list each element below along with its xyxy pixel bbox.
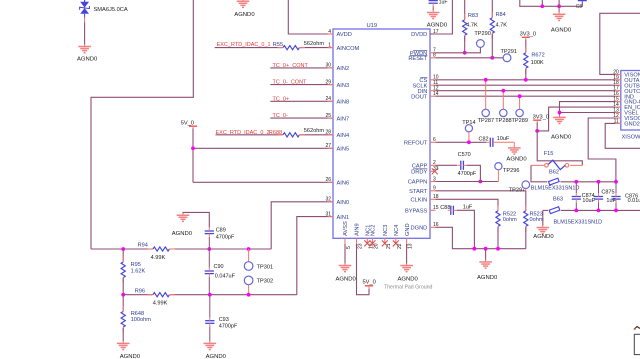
- svg-text:0.047uF: 0.047uF: [215, 274, 236, 280]
- svg-text:DOUT: DOUT: [411, 94, 428, 100]
- U19 pin 13 GND: [405, 223, 414, 249]
- wire bottom cap bus: [543, 209, 640, 211]
- wire lower bus 1: [91, 248, 271, 250]
- junction bus2 TP302: [247, 293, 251, 297]
- wire 5V_0 to AIN5/AIN6: [193, 128, 333, 182]
- connector pin 20 VISON: [613, 69, 640, 78]
- resistor R84 4.7K: [490, 0, 507, 58]
- svg-text:C82: C82: [479, 137, 489, 143]
- svg-text:10uF: 10uF: [497, 136, 510, 142]
- op-amp U19 ADC box: [333, 23, 430, 238]
- U19 pin 11 SCLK: [412, 80, 438, 89]
- U19 pin 31 AIN1: [325, 211, 349, 220]
- capacitor C570 4700pF: [458, 152, 477, 177]
- svg-text:C90: C90: [214, 264, 224, 270]
- U19 pin 18 CLKIN: [411, 194, 439, 203]
- U19 pin 1 AINCOM: [328, 42, 360, 51]
- wire VSEL pin13 to ground junction: [560, 112, 616, 114]
- svg-text:AGND0: AGND0: [551, 28, 572, 34]
- wire TC_0+_CONT to AIN2: [270, 67, 333, 69]
- connector pin 19 OUTA: [613, 75, 639, 84]
- junction top bus C874: [574, 180, 578, 184]
- svg-text:START: START: [409, 189, 428, 195]
- test point TP296: [495, 163, 520, 182]
- power 5V_0 bottom: [363, 280, 376, 289]
- svg-text:0ohm: 0ohm: [530, 217, 544, 223]
- junction bus1 TP301: [247, 247, 251, 251]
- svg-text:5V_0: 5V_0: [181, 120, 194, 126]
- resistor R95 1.62K: [121, 249, 145, 295]
- wire TC_0+ to AIN8: [270, 100, 333, 102]
- wire CS line: [435, 79, 615, 81]
- junction VSEL/ground: [558, 111, 562, 115]
- wire RESET to TP291: [435, 57, 503, 59]
- svg-text:C93: C93: [219, 317, 229, 323]
- junction EN_IO2/3V3_0: [535, 129, 539, 133]
- svg-text:SMA6J5.0CA: SMA6J5.0CA: [94, 7, 128, 13]
- wire DGND bus to ground: [485, 249, 487, 260]
- svg-text:AIN2: AIN2: [337, 66, 350, 72]
- junction bus1 R95: [121, 247, 125, 251]
- svg-text:AIN7: AIN7: [337, 116, 350, 122]
- svg-text:AGND0: AGND0: [234, 12, 255, 18]
- U19 pin 27 AIN5: [325, 143, 349, 152]
- wire lower bus 2: [123, 294, 297, 296]
- svg-text:21: 21: [386, 243, 392, 249]
- ground AGND0 under C93: [204, 341, 227, 359]
- svg-text:5V_0: 5V_0: [363, 280, 376, 286]
- svg-text:28: 28: [325, 130, 331, 136]
- svg-text:31: 31: [325, 211, 331, 217]
- capacitor C874 10uF: [572, 182, 596, 211]
- net label EXC_RTD_IDAC_0_2: [216, 130, 270, 136]
- svg-text:AGND0: AGND0: [172, 231, 193, 237]
- svg-text:GND: GND: [405, 223, 411, 236]
- U19 pin 25 AIN7: [325, 113, 349, 122]
- connector pin 16 IND: [613, 91, 634, 100]
- junction DGND bus ground: [484, 247, 488, 251]
- wire VISON from top right: [600, 13, 640, 74]
- power 5V_0 left: [181, 120, 197, 128]
- U19 pin 24 AIN8: [325, 96, 349, 105]
- svg-text:DGND: DGND: [411, 226, 428, 232]
- wire DOUT line: [435, 95, 615, 97]
- test point TP302: [244, 276, 273, 295]
- wire C570 to CAPPN: [467, 165, 481, 181]
- junction DGND bus C88: [473, 247, 477, 251]
- svg-text:100K: 100K: [531, 60, 544, 66]
- svg-text:R94: R94: [138, 243, 148, 249]
- capacitor C? 1uF at DVDD rail: [429, 0, 448, 11]
- svg-text:NC3: NC3: [383, 225, 389, 236]
- svg-text:100ohm: 100ohm: [131, 317, 152, 323]
- svg-text:AIN4: AIN4: [337, 133, 350, 139]
- junction top bus C876: [614, 180, 618, 184]
- junction DGND bus R522: [496, 247, 500, 251]
- U19 pin 8 RESET: [408, 53, 436, 62]
- svg-text:AGND0: AGND0: [477, 275, 498, 281]
- U19 pin 12 DIN: [418, 86, 439, 95]
- resistor R672 100K: [524, 40, 545, 80]
- svg-text:B63: B63: [553, 197, 563, 203]
- svg-text:AGND0: AGND0: [506, 157, 527, 163]
- wire REFOUT to C82: [435, 141, 486, 143]
- U19 pin 28 AIN4: [325, 130, 349, 139]
- junction C570/CAPPN: [479, 180, 483, 184]
- capacitor C93 4700pF: [205, 295, 238, 342]
- svg-text:4700pF: 4700pF: [216, 234, 235, 240]
- connector pin 11 GND2: [614, 118, 640, 127]
- resistor R83 4.7K: [463, 0, 479, 53]
- wire GND2 pin11 route: [605, 123, 640, 148]
- svg-text:DRDY: DRDY: [411, 170, 427, 176]
- U19 pin 7 PWDN: [410, 48, 436, 57]
- test point TP288: [495, 89, 511, 124]
- svg-text:33: 33: [433, 166, 439, 172]
- test point TP289: [512, 94, 528, 124]
- svg-text:GND2: GND2: [624, 122, 640, 128]
- wire EXC_RTD_IDAC_0_2 to AIN4: [216, 134, 334, 136]
- svg-text:NC2: NC2: [371, 225, 377, 236]
- svg-text:27: 27: [325, 143, 331, 149]
- capacitor C89 4700pF: [205, 228, 235, 249]
- junction bus2 C93: [208, 293, 212, 297]
- capacitor C82 10uF: [479, 136, 515, 147]
- U19 pin 14 DOUT: [411, 91, 439, 100]
- ground AGND0 on top bus: [551, 6, 572, 33]
- U19 pin 9 START: [409, 186, 436, 195]
- svg-text:DVDD: DVDD: [411, 32, 427, 38]
- svg-text:R95: R95: [131, 262, 141, 268]
- svg-text:RESET: RESET: [408, 56, 427, 62]
- wire EXC_RTD_IDAC_0_1 to AINCOM: [215, 47, 333, 49]
- U19 pin 20 NC2: [370, 225, 380, 249]
- svg-text:AIN5: AIN5: [337, 147, 350, 153]
- test point TP297: [509, 181, 530, 193]
- svg-text:CAPPN: CAPPN: [408, 180, 428, 186]
- ground AGND0 under AVSS: [336, 263, 357, 282]
- ferrite bead B63 BLM15EX331SN1D: [549, 197, 602, 226]
- wire top AGND bus: [520, 0, 583, 6]
- ground AGND0 under R648: [117, 341, 141, 359]
- svg-text:30: 30: [325, 63, 331, 69]
- wire AVDD: [288, 0, 333, 34]
- svg-text:C875: C875: [601, 190, 614, 196]
- svg-text:15: 15: [433, 205, 439, 211]
- net label TC_0+_CONT: [273, 63, 309, 69]
- test point TP287: [478, 78, 494, 124]
- svg-text:23: 23: [358, 243, 364, 249]
- wire DGND to bottom bus: [435, 227, 525, 248]
- capacitor C90 0.047uF: [205, 249, 236, 295]
- svg-text:TP302: TP302: [257, 279, 273, 285]
- wire C88 to DGND bus: [457, 210, 475, 248]
- svg-text:TP288: TP288: [495, 118, 511, 124]
- net label TC_0+: [273, 96, 290, 102]
- svg-text:R84: R84: [496, 12, 506, 18]
- svg-text:AGND0: AGND0: [336, 277, 357, 283]
- junction R672/CS: [524, 78, 528, 82]
- wire ferrite B63 to ground: [542, 210, 544, 225]
- title block corner: [634, 327, 640, 355]
- connector pin 15 GND-G: [613, 97, 640, 106]
- resistor R648 100ohm: [121, 295, 151, 342]
- wire PWDN to TP290: [435, 48, 480, 53]
- ground AGND0 under 1uF cap: [427, 10, 448, 28]
- svg-text:AGND0: AGND0: [398, 277, 419, 283]
- ground AGND0 DGND bus: [477, 260, 498, 281]
- svg-text:4.7K: 4.7K: [496, 23, 508, 29]
- svg-text:C570: C570: [458, 152, 471, 158]
- svg-text:562ohm: 562ohm: [304, 128, 325, 134]
- svg-text:25: 25: [325, 113, 331, 119]
- U19 pin 2 CAPP: [412, 160, 436, 169]
- svg-text:24: 24: [325, 96, 331, 102]
- test point TP14: [462, 120, 475, 144]
- U19 pin 29 AIN3: [325, 79, 349, 88]
- wire top cap bus: [561, 181, 617, 183]
- connector pin 13 VSEL: [613, 108, 638, 117]
- ground AGND0 under B63: [533, 225, 554, 240]
- svg-text:TP289: TP289: [512, 118, 528, 124]
- svg-text:Thermal Pad Ground: Thermal Pad Ground: [384, 285, 433, 291]
- junction bus1 C89/C90: [207, 247, 211, 251]
- resistor R688 562ohm: [269, 128, 325, 137]
- U19 pin 21 NC3: [382, 225, 392, 249]
- svg-text:5: 5: [346, 246, 352, 249]
- svg-text:AGND0: AGND0: [551, 134, 572, 140]
- U19 pin 10 CS: [419, 75, 438, 84]
- net label TC_0-: [273, 113, 288, 119]
- svg-text:TP287: TP287: [478, 118, 494, 124]
- svg-text:3V3_0: 3V3_0: [520, 31, 536, 37]
- svg-text:AGND0: AGND0: [206, 354, 227, 359]
- ground AGND0 feeding C89: [172, 213, 193, 237]
- U19 pin 5 AVSS: [343, 221, 352, 249]
- svg-text:4700pF: 4700pF: [458, 171, 477, 177]
- junction 5V_0/AIN5: [191, 146, 195, 150]
- capacitor C876 0.01uF: [611, 182, 640, 211]
- U19 pin 23 AIN9: [355, 223, 364, 249]
- connector pin 18 OUTB: [613, 80, 640, 89]
- net label EXC_RTD_IDAC_0_1: [217, 42, 271, 48]
- wire EN_IO2 pin14 to 3V3_0: [537, 107, 615, 131]
- U19 pin 16 DGND: [411, 222, 439, 231]
- svg-text:562ohm: 562ohm: [304, 41, 325, 47]
- svg-text:NC4: NC4: [394, 225, 400, 236]
- wire START to TP297: [435, 190, 525, 192]
- svg-text:AGND0: AGND0: [533, 234, 554, 240]
- junction bottom bus C876: [614, 209, 618, 213]
- resistor R522 0ohm: [496, 205, 517, 248]
- test point TP291: [501, 49, 517, 62]
- svg-text:AIN0: AIN0: [337, 200, 350, 206]
- wire 3V3_0 to fuse: [537, 122, 582, 165]
- wire TC_0- to AIN7: [270, 117, 333, 119]
- power 3V3_0 for R672: [520, 31, 536, 39]
- svg-text:C8: C8: [576, 4, 583, 10]
- wire TC_0-_CONT to AIN3: [270, 84, 333, 86]
- svg-text:AVSS: AVSS: [343, 221, 349, 236]
- ground AGND0 under TVS: [77, 44, 98, 62]
- U19 pin 15 BYPASS: [405, 205, 439, 214]
- U19 pin 6 REFOUT: [404, 137, 436, 146]
- wire SCLK line: [435, 84, 615, 86]
- wire CAPPN: [435, 181, 498, 183]
- U19 pin 30 AIN2: [325, 63, 349, 72]
- wire ground to C89: [183, 212, 209, 227]
- svg-text:4700pF: 4700pF: [219, 324, 238, 330]
- label Thermal Pad Ground: [384, 285, 433, 291]
- U19 pin 19 NC1: [364, 225, 374, 249]
- isolator U? XISOW box: [621, 71, 640, 141]
- ground AGND0 under GND pin: [398, 263, 419, 282]
- test point TP290: [474, 31, 490, 47]
- connector pin 14 EN_IO2: [613, 102, 640, 111]
- U19 pin 3 CAPPN: [408, 176, 436, 185]
- svg-text:REFOUT: REFOUT: [404, 141, 428, 147]
- junction R84/RESET: [490, 56, 494, 60]
- resistor R94 4.99K: [138, 243, 175, 261]
- svg-text:4: 4: [328, 29, 331, 35]
- U19 pin 32 AIN0: [325, 197, 349, 206]
- junction top bus 1: [540, 0, 544, 8]
- svg-text:B62: B62: [549, 170, 559, 176]
- svg-text:BLM15EX331SN1D: BLM15EX331SN1D: [554, 219, 603, 225]
- U19 pin 22 NC4: [393, 225, 403, 249]
- wire DIN line: [435, 90, 615, 92]
- wire GND pin to ground: [406, 244, 408, 264]
- wire TVS to ground: [84, 18, 86, 45]
- junction top bus 2: [557, 0, 561, 8]
- svg-text:C89: C89: [216, 228, 226, 234]
- svg-text:U19: U19: [367, 23, 378, 29]
- svg-text:1uF: 1uF: [463, 204, 473, 210]
- svg-text:10uF: 10uF: [582, 198, 595, 204]
- svg-text:0ohm: 0ohm: [503, 217, 517, 223]
- U19 pin 33 DRDY: [411, 166, 439, 175]
- svg-text:AIN1: AIN1: [337, 215, 350, 221]
- wire fuse left to ferrite B63a: [531, 165, 547, 181]
- power 3V3_0 near fuse: [533, 115, 549, 123]
- svg-text:1: 1: [328, 42, 331, 48]
- TVS diode D1 SMA6J5.0CA: [80, 0, 90, 18]
- svg-text:TP290: TP290: [474, 31, 490, 37]
- junction bottom bus C875: [597, 209, 601, 213]
- resistor R96 4.99K: [135, 289, 175, 307]
- svg-text:1uF: 1uF: [439, 0, 448, 5]
- U19 pin 26 AIN6: [325, 177, 349, 186]
- svg-text:26: 26: [325, 177, 331, 183]
- svg-text:AGND0: AGND0: [120, 354, 141, 359]
- fuse F15 B62: [544, 151, 569, 175]
- svg-text:TP301: TP301: [257, 264, 273, 270]
- svg-text:R96: R96: [135, 289, 145, 295]
- svg-text:XISOW72: XISOW72: [622, 134, 640, 140]
- connector pin 12 VISOO: [613, 113, 640, 122]
- wire CAPP to C570: [435, 164, 457, 166]
- wire DVDD up: [430, 0, 452, 34]
- svg-text:TP297: TP297: [509, 187, 525, 193]
- svg-text:BYPASS: BYPASS: [405, 209, 428, 215]
- svg-text:AIN8: AIN8: [337, 100, 350, 106]
- svg-text:TP296: TP296: [503, 168, 519, 174]
- svg-text:AIN9: AIN9: [355, 223, 361, 236]
- svg-text:AIN3: AIN3: [337, 83, 350, 89]
- label SMA6J5.0CA: [94, 7, 128, 13]
- junction R83/PWDN: [463, 51, 467, 55]
- ferrite bead B63a BLM15EX331SN1D: [531, 178, 580, 191]
- ground AGND0 pins 15/13: [551, 115, 572, 140]
- junction bottom bus C874: [574, 209, 578, 213]
- net label TC_0-_CONT: [273, 80, 308, 86]
- svg-text:AGND0: AGND0: [427, 22, 448, 28]
- svg-text:R672: R672: [531, 52, 544, 58]
- wire left net from top: [91, 0, 193, 249]
- svg-text:0.01uF: 0.01uF: [628, 198, 640, 204]
- wire CLKIN to R522: [435, 199, 498, 210]
- svg-text:AIN6: AIN6: [337, 181, 350, 187]
- wire VISOO pin12 route: [588, 118, 616, 182]
- wire AIN1 to lower bus: [297, 217, 333, 295]
- svg-text:AGND0: AGND0: [77, 56, 98, 62]
- resistor R55 562ohm: [273, 41, 325, 50]
- capacitor C88 1uF at BYPASS: [440, 204, 473, 215]
- svg-text:4.99K: 4.99K: [153, 301, 168, 307]
- capacitor top right partial: [576, 1, 587, 10]
- resistor R523 0ohm: [524, 191, 544, 249]
- connector pin 17 OUTC: [613, 86, 640, 95]
- svg-text:AVDD: AVDD: [337, 32, 352, 38]
- svg-text:R83: R83: [468, 13, 478, 19]
- junction top bus C875: [597, 180, 601, 184]
- svg-text:F15: F15: [544, 151, 554, 157]
- wire AIN9 to 5V_0: [357, 244, 370, 295]
- svg-text:20: 20: [374, 243, 380, 249]
- no-connect X on DRDY: [432, 168, 438, 174]
- capacitor C875 1uF: [594, 182, 617, 211]
- svg-text:CLKIN: CLKIN: [411, 198, 428, 204]
- test point TP301: [244, 249, 273, 270]
- svg-text:29: 29: [325, 79, 331, 85]
- svg-text:4.7K: 4.7K: [466, 22, 478, 28]
- svg-text:32: 32: [325, 197, 331, 203]
- ground AGND0 top middle: [234, 0, 255, 18]
- svg-text:1.62K: 1.62K: [131, 268, 146, 274]
- svg-text:4.99K: 4.99K: [151, 255, 166, 261]
- svg-text:BLM15EX331SN1D: BLM15EX331SN1D: [531, 185, 580, 191]
- svg-text:22: 22: [397, 243, 403, 249]
- svg-text:13: 13: [408, 243, 414, 249]
- ground AGND0 under C82: [506, 146, 527, 163]
- U19 pin 17 DVDD: [411, 29, 439, 38]
- wire GND-G pin15 to ground: [560, 102, 616, 116]
- U19 pin 4 AVDD: [328, 29, 352, 38]
- svg-text:AINCOM: AINCOM: [337, 46, 360, 52]
- wire AVSS to ground: [344, 244, 346, 264]
- wire AIN0 to lower bus: [271, 202, 333, 249]
- junction bus2 R648: [121, 293, 125, 297]
